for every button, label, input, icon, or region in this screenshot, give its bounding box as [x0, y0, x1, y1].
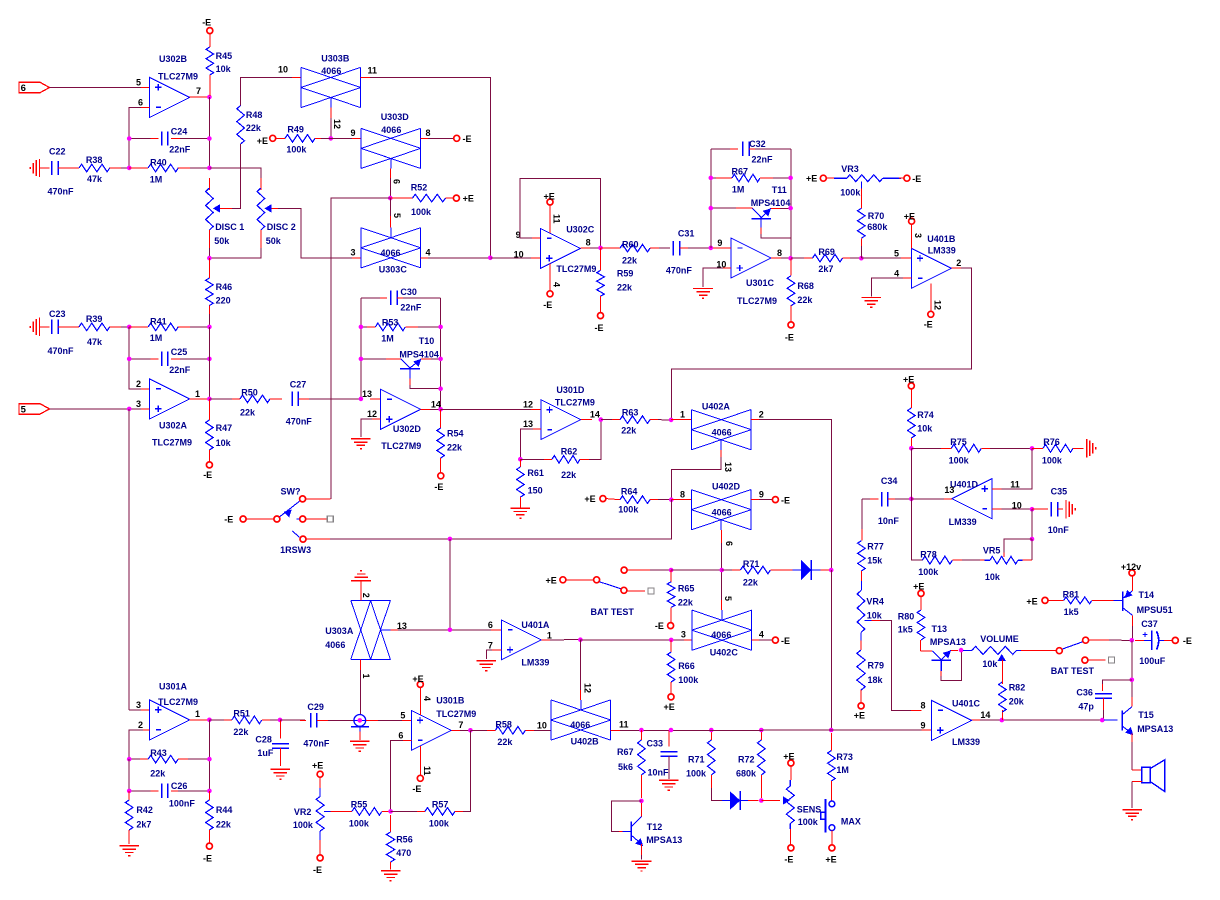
svg-text:R48: R48 — [246, 110, 263, 120]
op-amp U301D — [541, 400, 581, 440]
terminal -E SENS — [788, 845, 794, 851]
svg-text:+E: +E — [1026, 597, 1037, 607]
svg-text:R54: R54 — [447, 429, 464, 439]
resistor R46 — [208, 258, 210, 278]
svg-text:+E: +E — [546, 575, 557, 585]
svg-text:22k: 22k — [246, 123, 262, 133]
svg-text:C25: C25 — [171, 347, 188, 357]
svg-text:R77: R77 — [867, 541, 884, 551]
svg-text:6: 6 — [398, 730, 403, 740]
svg-text:R59: R59 — [617, 268, 634, 278]
svg-text:22k: 22k — [621, 426, 637, 436]
wire VR4 wiper to U401C pin8 — [864, 620, 871, 622]
ground R42 — [119, 845, 139, 847]
op-amp U302A — [150, 379, 190, 419]
op-amp U302C — [540, 228, 580, 268]
svg-text:+E: +E — [854, 711, 865, 721]
node bus C33 — [669, 728, 674, 733]
svg-text:U302C: U302C — [566, 224, 595, 234]
svg-text:R70: R70 — [868, 211, 885, 221]
svg-text:5: 5 — [894, 249, 899, 259]
svg-text:+E: +E — [913, 581, 924, 591]
wire U302D pin12 to ground — [371, 418, 381, 420]
svg-text:3: 3 — [681, 629, 686, 639]
wire U401B pin4 to ground — [901, 277, 911, 279]
wire U303B control pin12 — [330, 108, 332, 120]
wire C32 loop right — [790, 149, 792, 259]
resistor R82 — [1001, 710, 1003, 720]
node R72 bottom — [759, 798, 764, 803]
op-amp U302D — [381, 389, 421, 429]
speaker LS1 — [1132, 769, 1142, 771]
svg-text:SENS: SENS — [797, 805, 822, 815]
terminal +E R66 — [668, 694, 674, 700]
svg-text:U402C: U402C — [710, 647, 739, 657]
svg-text:22k: 22k — [622, 256, 638, 266]
svg-text:C28: C28 — [255, 734, 272, 744]
wire U303A pin1 to jack — [360, 660, 362, 673]
svg-text:4066: 4066 — [381, 248, 401, 258]
node R43 left — [127, 757, 132, 762]
svg-text:6: 6 — [724, 541, 734, 546]
svg-text:22k: 22k — [233, 727, 249, 737]
wire jack to U301B pin5 — [366, 719, 380, 721]
wire C32 loop left — [710, 149, 712, 248]
resistor R68 — [790, 258, 792, 275]
svg-text:8: 8 — [920, 701, 925, 711]
svg-text:R56: R56 — [396, 835, 413, 845]
node U301B out — [468, 728, 473, 733]
node diode out — [829, 568, 834, 573]
svg-text:R58: R58 — [495, 719, 512, 729]
wire U401D pin13 — [942, 498, 952, 500]
svg-text:-E: -E — [202, 18, 211, 28]
svg-text:R39: R39 — [86, 314, 103, 324]
svg-text:LM339: LM339 — [521, 658, 549, 668]
svg-text:C29: C29 — [307, 702, 324, 712]
resistor R56 — [390, 815, 392, 832]
wire U401A out to U402C pin3 — [580, 639, 671, 641]
terminal -E VR2 — [317, 855, 323, 861]
svg-text:11: 11 — [368, 65, 378, 75]
svg-text:3: 3 — [350, 247, 355, 257]
wire diode2 to SENS — [761, 800, 780, 802]
op-amp U301B — [411, 710, 451, 750]
svg-text:9: 9 — [920, 721, 925, 731]
svg-text:T13: T13 — [932, 624, 948, 634]
jack C35 — [1065, 500, 1067, 518]
node R41 out — [207, 325, 212, 330]
svg-text:2: 2 — [759, 409, 764, 419]
svg-text:1: 1 — [195, 709, 200, 719]
resistor R63 — [601, 419, 620, 421]
svg-text:R74: R74 — [917, 410, 934, 420]
svg-text:22k: 22k — [497, 737, 513, 747]
wire U401A output — [541, 639, 552, 641]
wire to U301A pin3 — [129, 709, 149, 711]
svg-text:6: 6 — [392, 179, 402, 184]
svg-text:470nF: 470nF — [303, 738, 330, 748]
resistor R61 — [519, 459, 521, 467]
node R67 left — [709, 176, 714, 181]
svg-text:MPSU51: MPSU51 — [1137, 605, 1173, 615]
analog switch U303D — [360, 128, 362, 168]
svg-text:VR2: VR2 — [294, 807, 312, 817]
svg-text:+E: +E — [825, 854, 836, 864]
resistor R66 — [670, 640, 672, 652]
resistor R71 22k — [722, 569, 741, 571]
wire U401C output line — [972, 719, 982, 721]
svg-text:+E: +E — [903, 374, 914, 384]
svg-text:TLC27M9: TLC27M9 — [158, 71, 198, 81]
svg-text:-E: -E — [785, 333, 794, 343]
diode D2 — [711, 788, 722, 801]
wire U402D pin9 to -E — [751, 499, 761, 501]
svg-text:+E: +E — [584, 494, 595, 504]
node T11 emitter — [788, 206, 793, 211]
terminal +E U401B pin3 — [909, 218, 915, 224]
svg-text:8: 8 — [426, 128, 431, 138]
svg-text:C31: C31 — [678, 229, 695, 239]
resistor R42 — [128, 791, 130, 800]
node R39/R41 — [127, 325, 132, 330]
terminal +E R79 — [858, 703, 864, 709]
svg-text:4066: 4066 — [570, 720, 590, 730]
op-amp U401B — [911, 248, 951, 288]
resistor R48 — [240, 79, 242, 106]
svg-text:R63: R63 — [622, 408, 639, 418]
svg-text:9: 9 — [759, 489, 764, 499]
svg-text:TLC27M9: TLC27M9 — [436, 709, 476, 719]
svg-text:100k: 100k — [949, 456, 970, 466]
svg-text:+E: +E — [806, 174, 817, 184]
resistor R75 — [911, 447, 951, 449]
svg-text:U401C: U401C — [952, 698, 981, 708]
terminal -E U401B pin12 — [928, 311, 934, 317]
wire U303A pin13 — [391, 629, 401, 631]
node U302D pin13 — [359, 397, 364, 402]
svg-text:2k7: 2k7 — [818, 264, 833, 274]
capacitor C32 — [742, 142, 744, 156]
terminal +E R49 — [270, 135, 276, 141]
transistor T14 MPSU51 — [1113, 599, 1122, 601]
wire U301C pin10 to ground — [721, 267, 731, 269]
svg-text:4066: 4066 — [711, 630, 731, 640]
svg-text:1k5: 1k5 — [898, 625, 913, 635]
svg-text:12: 12 — [582, 683, 592, 693]
resistor R69 — [791, 257, 813, 259]
svg-text:22k: 22k — [561, 470, 577, 480]
resistor R47 — [208, 399, 210, 420]
svg-text:4066: 4066 — [712, 508, 732, 518]
svg-text:C37: C37 — [1141, 619, 1158, 629]
svg-text:R79: R79 — [868, 661, 885, 671]
svg-text:12: 12 — [332, 119, 342, 129]
svg-text:-E: -E — [781, 636, 790, 646]
svg-text:+E: +E — [664, 702, 675, 712]
analog switch U303C — [360, 228, 362, 268]
svg-text:8: 8 — [586, 238, 591, 248]
wire U303A pin2 — [360, 581, 362, 600]
svg-text:+E: +E — [312, 760, 323, 770]
svg-text:13: 13 — [523, 419, 533, 429]
svg-text:R65: R65 — [678, 583, 695, 593]
svg-text:-E: -E — [924, 320, 933, 330]
node U301C pin9 — [709, 246, 714, 251]
capacitor C35 — [1032, 508, 1048, 510]
node R75/R76 — [1030, 446, 1035, 451]
svg-text:1M: 1M — [836, 765, 849, 775]
terminal -E R65 — [668, 623, 674, 629]
svg-text:47k: 47k — [87, 337, 103, 347]
svg-text:8: 8 — [680, 489, 685, 499]
svg-text:-E: -E — [412, 784, 421, 794]
wire U301B pin4 — [419, 687, 421, 715]
svg-text:100k: 100k — [411, 207, 432, 217]
resistor R81 — [1042, 597, 1048, 603]
potentiometer VOLUME — [963, 649, 972, 651]
svg-text:T15: T15 — [1138, 710, 1154, 720]
svg-text:C34: C34 — [881, 476, 898, 486]
resistor R64 — [606, 499, 620, 500]
analog switch U303A — [351, 599, 391, 601]
node R69/R70 — [859, 256, 864, 261]
capacitor C24 — [129, 138, 158, 140]
resistor R60 — [601, 247, 621, 249]
svg-text:22nF: 22nF — [169, 144, 191, 154]
connector flag 5 — [19, 404, 50, 414]
wire U402C control pin5 — [721, 598, 723, 610]
wire U303C control pin5 — [390, 198, 392, 218]
svg-text:680k: 680k — [736, 768, 757, 778]
svg-text:3: 3 — [136, 399, 141, 409]
resistor R57 — [391, 810, 425, 812]
svg-text:4066: 4066 — [712, 428, 732, 438]
svg-text:R66: R66 — [678, 661, 695, 671]
terminal +E MAX — [829, 845, 835, 851]
resistor R55 — [342, 810, 352, 812]
svg-text:5: 5 — [392, 213, 402, 218]
svg-text:T11: T11 — [772, 185, 787, 195]
wire out vertical — [208, 720, 210, 791]
wire to U401A pin6 — [450, 629, 491, 631]
svg-text:R41: R41 — [150, 316, 167, 326]
svg-text:11: 11 — [422, 766, 432, 776]
svg-text:100k: 100k — [349, 819, 370, 829]
svg-text:U303C: U303C — [379, 265, 408, 275]
svg-text:R46: R46 — [216, 282, 233, 292]
switch SW1 1RSW3 — [240, 516, 246, 522]
node U401C out — [1000, 718, 1005, 723]
terminal -E U402D — [772, 497, 778, 503]
resistor R52 — [390, 197, 412, 199]
svg-text:8: 8 — [777, 248, 782, 258]
svg-text:14: 14 — [980, 710, 990, 720]
wire R48 top to U303B pin10 — [241, 77, 301, 105]
svg-text:100nF: 100nF — [169, 799, 196, 809]
svg-text:R44: R44 — [216, 805, 233, 815]
resistor R76 — [1032, 447, 1043, 449]
op-amp U301C — [731, 238, 771, 278]
node U402D control — [719, 568, 724, 573]
svg-text:100k: 100k — [798, 817, 819, 827]
svg-text:R71: R71 — [688, 754, 705, 764]
svg-text:C33: C33 — [647, 738, 664, 748]
node jack — [358, 718, 363, 723]
svg-text:5: 5 — [136, 78, 141, 88]
svg-text:2k7: 2k7 — [136, 820, 151, 830]
svg-text:R75: R75 — [950, 437, 967, 447]
svg-text:U303A: U303A — [325, 626, 354, 636]
node C26 right — [207, 789, 212, 794]
node U302B out — [207, 95, 212, 100]
svg-text:100k: 100k — [678, 675, 699, 685]
ground R61 — [511, 507, 531, 509]
svg-text:-E: -E — [1183, 636, 1192, 646]
resistor R43 — [129, 758, 148, 760]
svg-text:100k: 100k — [1042, 456, 1063, 466]
capacitor C22 — [40, 167, 50, 169]
wire R43 to C26 — [128, 759, 130, 791]
svg-text:1: 1 — [195, 389, 200, 399]
svg-text:100k: 100k — [918, 567, 939, 577]
svg-text:-E: -E — [784, 854, 793, 864]
wire U402A pin2 — [751, 419, 761, 421]
svg-text:U402A: U402A — [702, 401, 731, 411]
node U301D out — [599, 417, 604, 422]
resistor R71 100k — [710, 730, 712, 740]
node R40 out — [207, 166, 212, 171]
potentiometer VR4 — [860, 581, 862, 591]
svg-text:470nF: 470nF — [666, 266, 693, 276]
wire U302B output — [190, 96, 210, 98]
svg-text:100k: 100k — [286, 144, 307, 154]
node T10 base — [359, 357, 364, 362]
wire flag5 down to U301A — [128, 409, 130, 710]
transistor T11 MPS4104 — [711, 207, 742, 209]
svg-text:U402B: U402B — [571, 736, 600, 746]
wire U402C pin4 to -E — [752, 639, 761, 641]
svg-text:R53: R53 — [382, 318, 399, 328]
wire DISC2 wiper to U303C pin3 — [268, 207, 280, 209]
svg-text:+: + — [1142, 629, 1148, 640]
svg-text:22k: 22k — [216, 820, 232, 830]
svg-text:4: 4 — [759, 630, 764, 640]
wire flag5 to U302A pin3 — [50, 408, 150, 410]
svg-text:LM339: LM339 — [952, 737, 980, 747]
wire U301B pin11 — [419, 746, 421, 775]
svg-text:5: 5 — [400, 710, 405, 720]
ground C33 — [659, 779, 679, 781]
svg-text:50k: 50k — [266, 236, 282, 246]
svg-text:10k: 10k — [985, 572, 1001, 582]
svg-text:LM339: LM339 — [928, 246, 956, 256]
resistor R50 — [209, 398, 240, 400]
node C36 bottom — [1100, 718, 1105, 723]
resistor R79 — [860, 641, 862, 651]
jack input 2 — [39, 159, 41, 177]
transistor T15 MPSA13 — [1104, 719, 1118, 721]
resistor R58 — [470, 729, 495, 731]
svg-text:C22: C22 — [49, 146, 66, 156]
analog switch U402A — [690, 410, 692, 450]
terminal -E U303D — [454, 135, 460, 141]
svg-text:R78: R78 — [920, 549, 937, 559]
svg-text:R82: R82 — [1009, 683, 1026, 693]
svg-text:MPSA13: MPSA13 — [1137, 724, 1173, 734]
svg-text:-E: -E — [224, 515, 233, 525]
analog switch U402B — [550, 700, 552, 740]
svg-text:U401B: U401B — [927, 234, 956, 244]
svg-text:15k: 15k — [867, 555, 883, 565]
svg-text:T14: T14 — [1139, 590, 1155, 600]
svg-text:4: 4 — [894, 269, 899, 279]
svg-text:MPSA13: MPSA13 — [930, 637, 966, 647]
resistor R49 — [276, 137, 285, 139]
terminal -E R44 — [206, 843, 212, 849]
resistor R72 — [760, 730, 762, 740]
node C26 left — [127, 789, 132, 794]
svg-text:1: 1 — [680, 409, 685, 419]
svg-text:22k: 22k — [678, 598, 694, 608]
ground speaker — [1122, 809, 1142, 811]
svg-text:11: 11 — [1010, 480, 1020, 490]
wire pin10 to VR5 — [1031, 509, 1033, 539]
wire U301B output — [451, 729, 462, 731]
svg-text:1M: 1M — [732, 185, 745, 195]
wire output vertical — [208, 97, 210, 168]
node flag5 — [127, 407, 132, 412]
wire U402D control pin6 — [721, 530, 723, 545]
transistor T10 MPS4104 — [361, 358, 392, 360]
svg-text:R49: R49 — [287, 125, 304, 135]
svg-text:R50: R50 — [241, 387, 258, 397]
wire U302C pin11 — [549, 205, 551, 233]
svg-text:TLC27M9: TLC27M9 — [555, 398, 595, 408]
wire to U303D pin9 — [331, 137, 361, 139]
svg-text:C36: C36 — [1076, 687, 1093, 697]
node R55/R56 — [388, 809, 393, 814]
node C24 right — [207, 136, 212, 141]
svg-text:6: 6 — [21, 83, 26, 94]
svg-text:TLC27M9: TLC27M9 — [158, 697, 198, 707]
svg-text:3: 3 — [913, 233, 923, 238]
wire U301C pin9 — [713, 247, 731, 249]
node R38/R40 — [127, 166, 132, 171]
node pin12/R49 — [329, 136, 334, 141]
svg-text:-E: -E — [203, 470, 212, 480]
svg-text:10: 10 — [514, 250, 524, 260]
svg-text:R52: R52 — [411, 183, 428, 193]
svg-text:12: 12 — [933, 300, 943, 310]
ground R56 — [381, 870, 401, 872]
wire to DISC2 top — [209, 168, 261, 180]
resistor R80 — [918, 590, 924, 596]
svg-text:-E: -E — [543, 300, 552, 310]
svg-text:R73: R73 — [836, 752, 853, 762]
resistor R74 — [908, 383, 914, 389]
svg-text:5: 5 — [21, 405, 27, 416]
node R72 top — [759, 728, 764, 733]
wire U401D pin11 — [992, 488, 1004, 490]
svg-text:U302B: U302B — [159, 54, 188, 64]
node R61/R62 — [518, 457, 523, 462]
node bus/U401A — [448, 537, 453, 542]
wire to U402D pin8 — [671, 499, 691, 501]
resistor R41 — [129, 326, 148, 328]
node U302D out — [438, 407, 443, 412]
terminal -E C37 — [1172, 637, 1178, 643]
